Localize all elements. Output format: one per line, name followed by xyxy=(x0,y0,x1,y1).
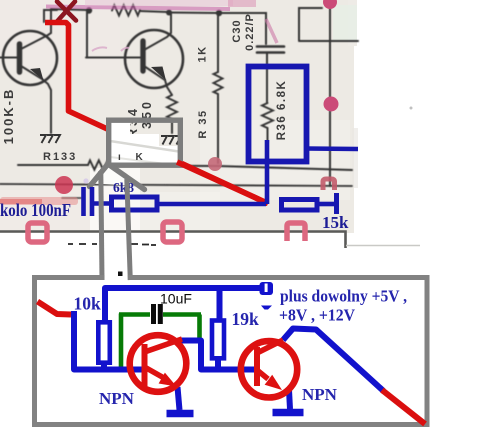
shaft line A xyxy=(101,171,102,280)
green wire left horizontal xyxy=(119,312,150,317)
wire: right long vertical xyxy=(329,2,331,186)
pink line over top rail xyxy=(46,7,230,10)
ground Q-b emitter xyxy=(161,136,181,145)
pink n mark 3 xyxy=(287,223,305,241)
emitter arrow Q-a xyxy=(30,68,44,81)
emitter arrow Q-b xyxy=(151,67,166,81)
svg-text:10k: 10k xyxy=(74,294,102,314)
wire below R36 zigzag xyxy=(267,128,269,142)
mauve dot at R35 bottom xyxy=(208,157,222,171)
wire cap to 6k8 xyxy=(93,201,110,206)
transistor Q-a base bar xyxy=(17,44,23,72)
wire: short line3 xyxy=(62,197,81,199)
pink square mark 2 xyxy=(163,222,182,242)
svg-text:19k: 19k xyxy=(232,309,260,329)
ground T2 xyxy=(273,409,304,417)
arrow head right leg xyxy=(108,164,145,190)
svg-text:0.22/P: 0.22/P xyxy=(244,13,256,51)
pink smear over kolo xyxy=(0,197,78,205)
transistor Q-a circle xyxy=(3,31,57,85)
pink smear top xyxy=(228,0,256,7)
wire 19k bottom lead xyxy=(215,358,221,369)
faint shelf line right xyxy=(346,245,420,247)
wire: top rail left xyxy=(51,9,88,10)
box border xyxy=(35,278,428,425)
resistor 350 zigzag xyxy=(167,95,177,119)
red input wire xyxy=(38,302,72,315)
svg-text:6k8: 6k8 xyxy=(113,180,134,195)
transistor T1 xyxy=(130,335,187,392)
terminal bar xyxy=(334,193,339,214)
wire left vertical from red xyxy=(74,311,142,370)
svg-text:R36 6.8K: R36 6.8K xyxy=(276,80,288,141)
ground Q-a xyxy=(40,135,60,143)
wire 15k right xyxy=(318,202,334,207)
pink diagonal by C30 xyxy=(266,19,277,43)
wire T1 collector xyxy=(180,341,254,370)
resistor 19k box xyxy=(212,321,224,359)
pink dot mid right xyxy=(324,97,339,112)
wire: R35 branch vertical xyxy=(217,13,219,72)
capacitor 100nF plates xyxy=(81,187,86,216)
wire top rail to C xyxy=(169,12,219,15)
svg-text:100K-B: 100K-B xyxy=(1,88,16,145)
R36 value box xyxy=(249,67,307,162)
faint streaks xyxy=(110,141,182,152)
black dot above box xyxy=(118,272,123,277)
gray box border xyxy=(109,120,181,165)
node dot A xyxy=(86,7,92,13)
wire top rail xyxy=(105,288,262,321)
wire: right box corner xyxy=(299,8,358,41)
svg-text:R 35: R 35 xyxy=(197,109,209,138)
arrow head white fill xyxy=(92,163,140,186)
green wire right horizontal xyxy=(163,312,201,317)
ground T1 xyxy=(167,410,194,418)
scan bottom edge line xyxy=(0,232,346,249)
svg-text:1K: 1K xyxy=(197,45,209,62)
capacitor C30 plates xyxy=(257,45,284,48)
wire below 350 xyxy=(171,119,173,133)
node dot B xyxy=(166,10,172,16)
wire: Q-a base lead xyxy=(0,57,17,59)
pink dot top right xyxy=(323,0,337,9)
shaft line B xyxy=(127,179,131,280)
wire stub bracket top-left xyxy=(44,10,57,22)
transistor Q-b circle xyxy=(125,30,183,88)
svg-text:350: 350 xyxy=(140,99,154,129)
red wire re-emerge xyxy=(177,162,268,204)
svg-text:R133: R133 xyxy=(43,151,77,163)
svg-text:NPN: NPN xyxy=(99,389,135,408)
svg-text:ı K: ı K xyxy=(118,152,149,163)
resistor 10k box xyxy=(98,322,110,362)
wire T2 emitter to ground xyxy=(289,390,290,409)
svg-text:C30: C30 xyxy=(231,19,243,42)
wire R35 down to line1 xyxy=(217,94,219,163)
terminal plug xyxy=(260,282,274,295)
svg-text:10uF: 10uF xyxy=(160,291,192,307)
resistor R35 zigzag xyxy=(214,72,223,94)
node dot C xyxy=(216,10,222,16)
resistor 6k8 box xyxy=(112,197,158,210)
blue wires bottom box xyxy=(74,288,384,410)
green wire right vertical xyxy=(197,315,202,341)
resistor R133 zigzag xyxy=(88,160,114,169)
red output wire xyxy=(382,390,425,424)
wire below C30 xyxy=(266,53,268,103)
transistor Q-a emitter xyxy=(21,66,51,133)
wire R36 down to junction xyxy=(265,140,270,204)
scan small dashes row xyxy=(68,244,156,245)
wire 6k8 to junction xyxy=(158,202,266,207)
green wire left vertical xyxy=(119,314,124,369)
resistor (top zigzag) xyxy=(112,5,140,16)
wire: horizontal line1 xyxy=(18,164,88,166)
wire T2 collector peak xyxy=(283,329,384,392)
pink wash above rail xyxy=(85,0,233,6)
wire R36 right stub xyxy=(306,146,358,151)
transistor Q-b emitter xyxy=(144,66,172,95)
wire T1 emitter to ground xyxy=(178,387,180,410)
arrow head left leg xyxy=(90,164,109,187)
wire: horizontal line2 xyxy=(0,184,352,186)
svg-text:plus dowolny +5V ,: plus dowolny +5V , xyxy=(280,287,407,306)
crimson dot on line2 xyxy=(55,176,73,194)
svg-text:15k: 15k xyxy=(322,213,349,232)
terminal minus tick xyxy=(261,306,272,310)
green feedback wire xyxy=(119,314,201,369)
transistor T2 xyxy=(241,340,297,397)
10uF capacitor plates xyxy=(151,304,156,324)
svg-text:+8V , +12V: +8V , +12V xyxy=(279,306,356,325)
transistor Q-b base bar xyxy=(140,41,145,71)
wire line1 right xyxy=(218,166,352,170)
svg-text:kolo 100nF: kolo 100nF xyxy=(0,200,71,220)
resistor 15k box xyxy=(282,200,318,211)
wire top rail to corner xyxy=(219,13,266,44)
wire 19k top lead xyxy=(217,288,223,319)
pink check marks in small box xyxy=(92,47,107,51)
white-out interior xyxy=(109,121,130,165)
faint speck xyxy=(410,107,413,110)
transistor Q-b collector xyxy=(144,13,171,50)
pink square mark 1 xyxy=(28,223,47,242)
wire: top rail middle xyxy=(140,11,168,12)
wire 10k bottom lead xyxy=(101,362,107,369)
resistor R36 zigzag xyxy=(262,103,273,128)
pink n mark on line1 xyxy=(323,179,335,190)
transistor Q-a collector xyxy=(21,9,51,49)
svg-text:NPN: NPN xyxy=(302,385,338,404)
wire: small box left xyxy=(86,12,140,58)
red wire main xyxy=(45,23,268,204)
X mark xyxy=(57,2,76,22)
scan paper background xyxy=(0,0,358,233)
